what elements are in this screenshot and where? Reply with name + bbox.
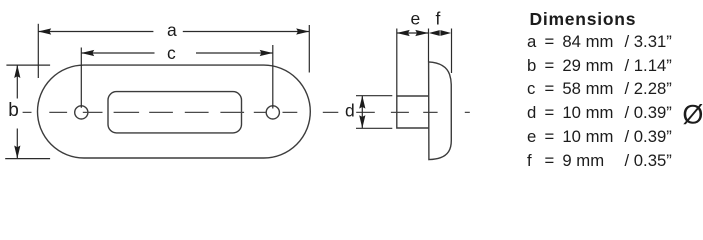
- extension line c right (hole center): [272, 45, 274, 109]
- dimension d line: [361, 96, 363, 129]
- dimension e line: [397, 32, 429, 34]
- dimensions text block: [0, 0, 703, 177]
- extension line d bottom: [356, 127, 392, 129]
- centerline (dashed) through side view: [356, 111, 470, 113]
- stem rectangle (side view post): [397, 96, 429, 128]
- extension line b bottom: [5, 158, 50, 160]
- cap profile (side view lens): [429, 62, 452, 160]
- centerline (dashed) through front view: [23, 111, 470, 113]
- extension line d top: [356, 95, 392, 97]
- f arrowhead right: [440, 30, 451, 36]
- f arrowhead left: [429, 30, 440, 36]
- dimension f line (two facing arrowheads): [439, 32, 441, 34]
- dimension c line: [81, 52, 154, 54]
- extension line c left (hole center): [80, 48, 82, 108]
- hole left: [75, 106, 88, 119]
- extension line b top: [6, 64, 50, 66]
- slot (inner rounded rectangle): [108, 92, 242, 133]
- stadium outline (front view body): [38, 65, 311, 158]
- extension line a left: [37, 24, 39, 78]
- dimension a line: [38, 31, 153, 33]
- hole right: [266, 106, 279, 119]
- extension line e/f middle (cap left edge extended): [428, 29, 430, 62]
- extension line f right: [451, 29, 453, 74]
- extension line a right: [308, 25, 310, 73]
- dimension b line: [16, 65, 18, 98]
- extension line e left (stem edge extended): [396, 29, 398, 96]
